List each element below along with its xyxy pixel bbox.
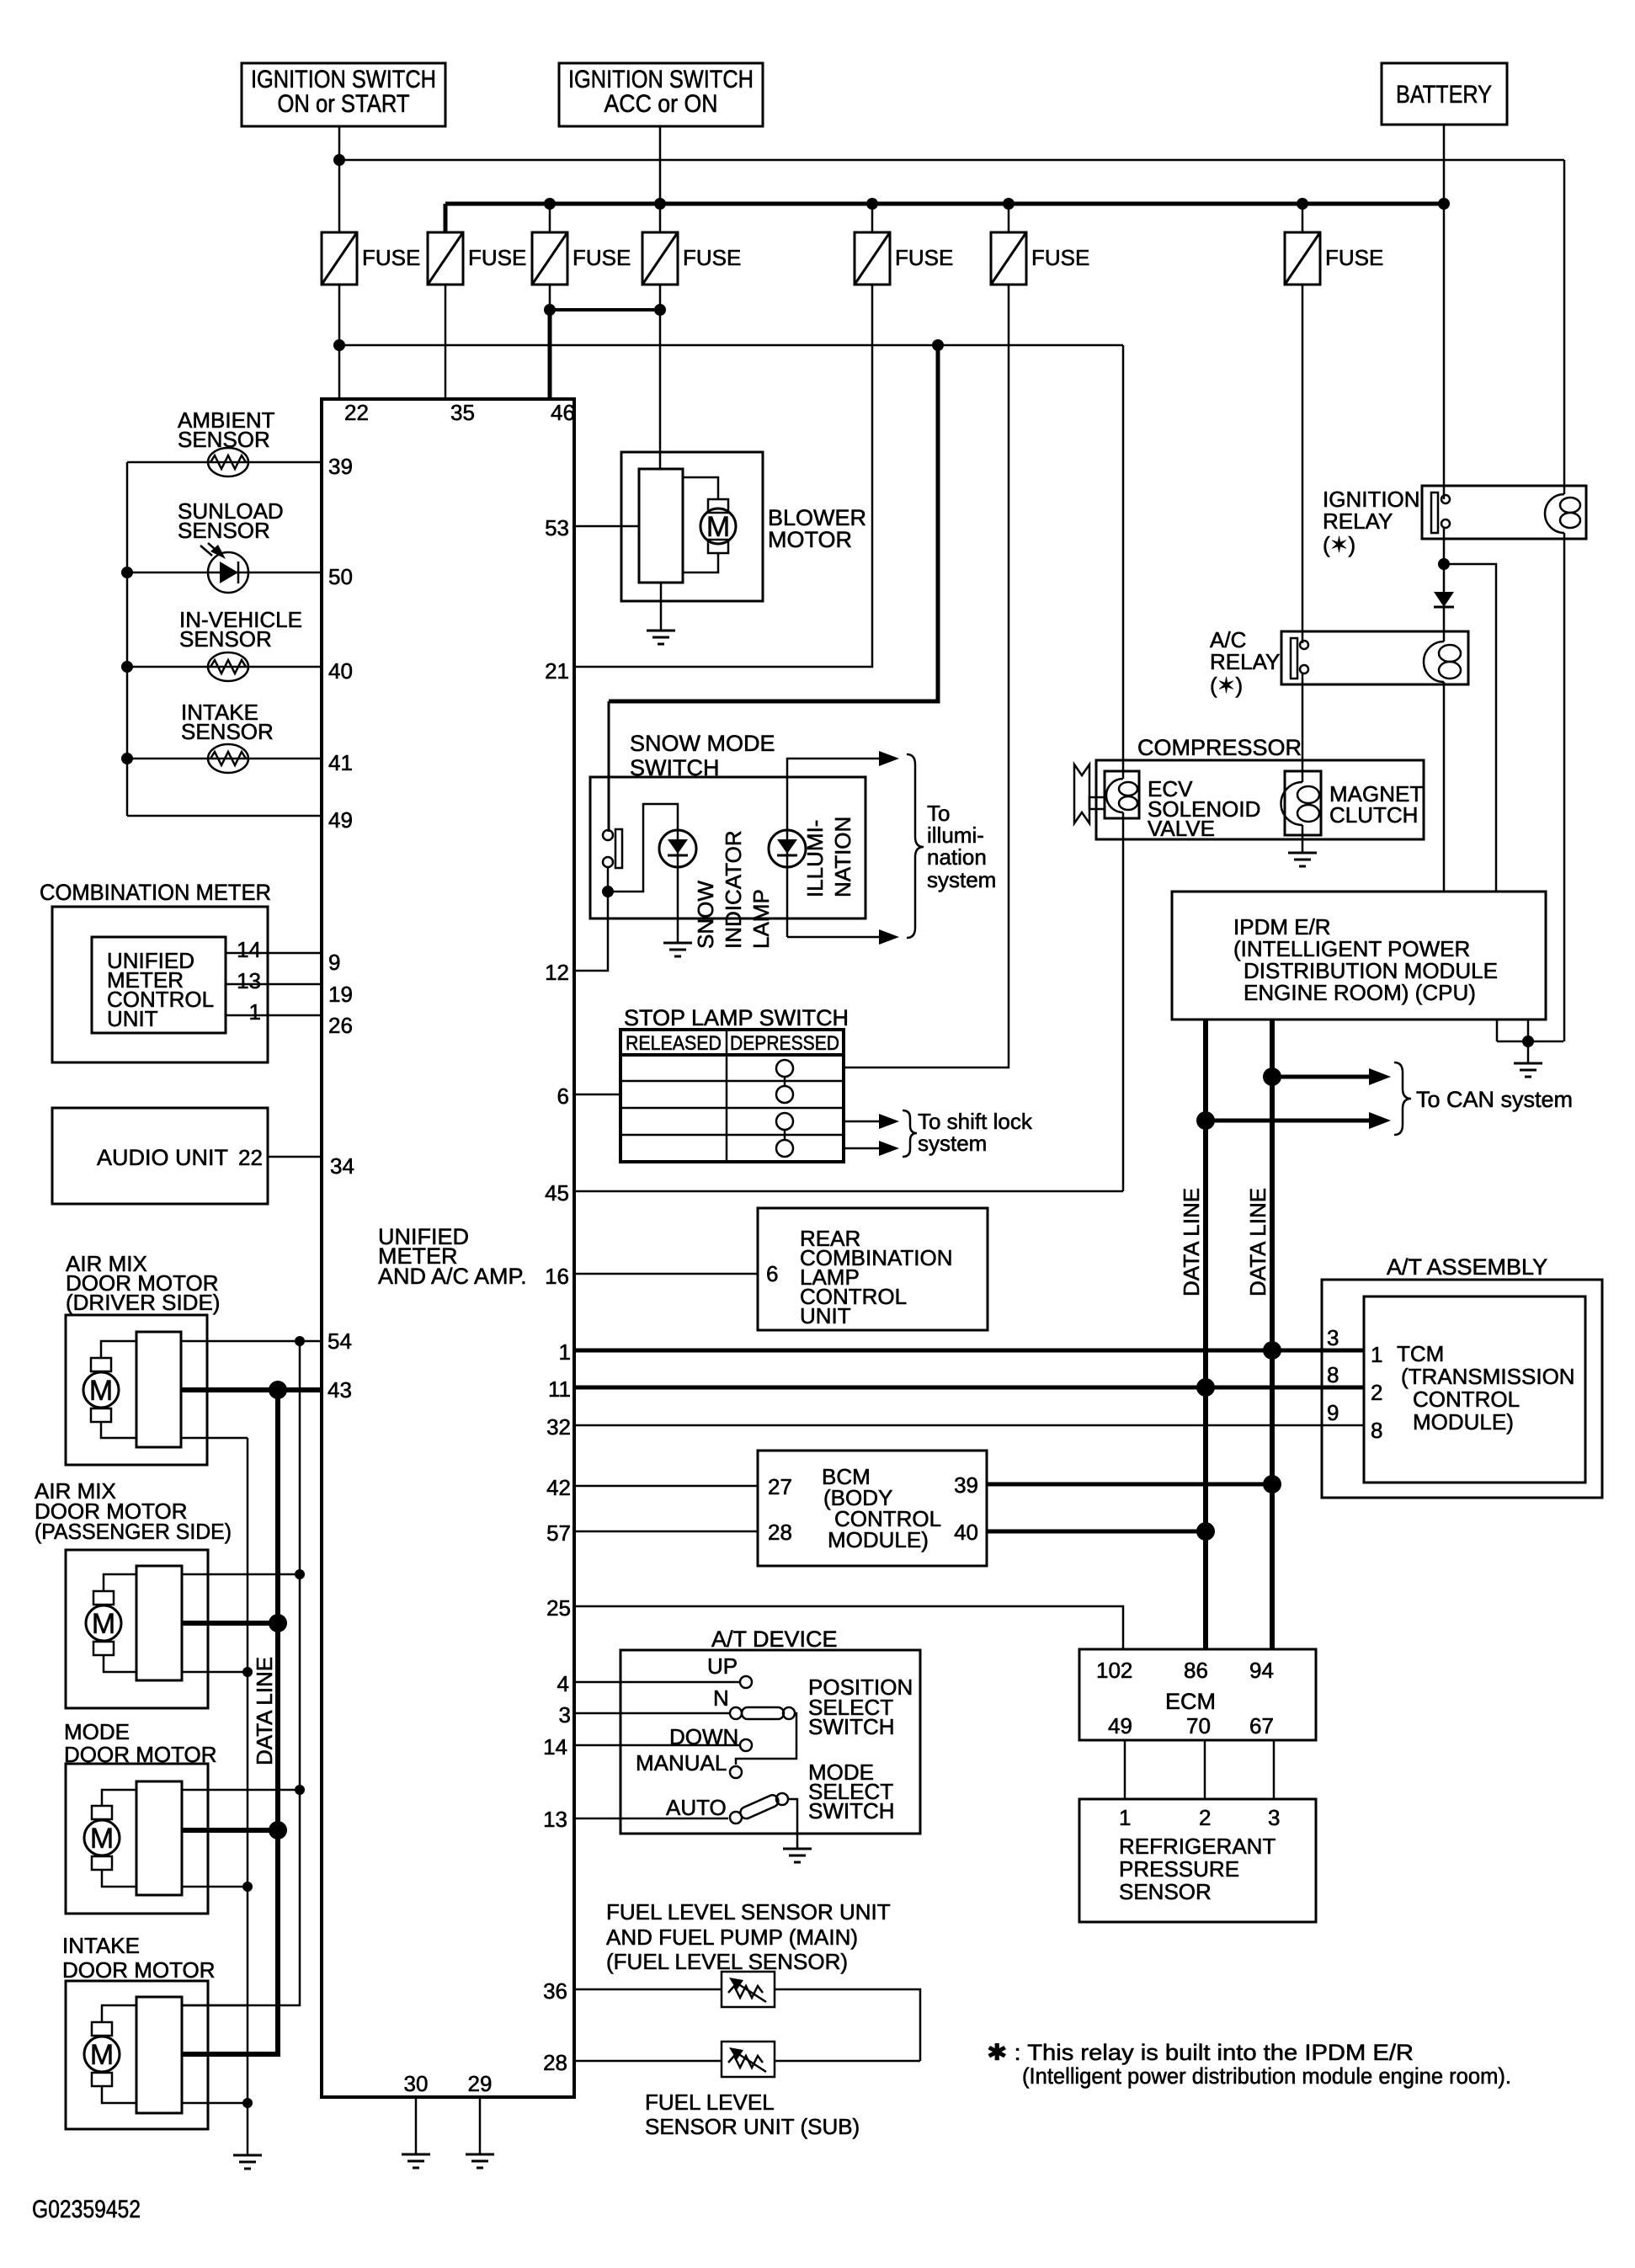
- wire: BCM pin 40 to data line (thick): [987, 1530, 1206, 1534]
- ground for pin 29: [466, 2154, 494, 2168]
- svg-text:BATTERY: BATTERY: [1396, 81, 1492, 109]
- A/C relay: [1281, 631, 1468, 684]
- wire: mode block mid to data line rail (thick): [182, 1828, 278, 1833]
- svg-text:9: 9: [328, 950, 340, 975]
- fuse F1: [322, 232, 420, 285]
- mode motor M: [84, 1806, 120, 1870]
- svg-text:53: 53: [545, 515, 569, 540]
- label AIR MIX DOOR MOTOR (DRIVER SIDE): [66, 1251, 220, 1315]
- brace to shift lock system: [903, 1110, 917, 1157]
- label AIR MIX DOOR MOTOR (PASSENGER SIDE): [35, 1478, 232, 1544]
- svg-text:14: 14: [543, 1734, 567, 1760]
- svg-text:COMPRESSOR: COMPRESSOR: [1137, 735, 1302, 760]
- svg-text:49: 49: [328, 807, 353, 833]
- junction data line rail on pin 43 wire: [269, 1381, 287, 1399]
- wire: driver block to pin 43 (thick): [181, 1387, 322, 1392]
- svg-text:M: M: [706, 511, 730, 543]
- svg-text:32: 32: [546, 1414, 571, 1440]
- svg-text:UNIT: UNIT: [107, 1006, 158, 1031]
- label MODE DOOR MOTOR: [64, 1719, 217, 1767]
- junction CAN branch upper: [1263, 1067, 1281, 1086]
- junction node on ON/START feed: [333, 154, 345, 166]
- junction data line on pin 1 wire: [1263, 1341, 1281, 1360]
- fuel level sensor (sub) variable resistor: [722, 2042, 775, 2077]
- svg-text:INTAKE: INTAKE: [62, 1933, 140, 1958]
- wire: audio pin 22 to amp pin 34: [268, 1156, 322, 1158]
- mode select switch blade on AUTO: [738, 1793, 780, 1820]
- wire: data line rail vertical (thick): [181, 1390, 278, 2054]
- label ECV SOLENOID VALVE: [1148, 776, 1260, 841]
- svg-text:A/T ASSEMBLY: A/T ASSEMBLY: [1387, 1254, 1547, 1280]
- junction CAN branch lower: [1196, 1111, 1215, 1130]
- arrow to shift lock lower: [879, 1141, 899, 1156]
- blower resistor block: [639, 469, 683, 583]
- wire: driver block bottom to rail B: [181, 1437, 248, 1440]
- fuel level sensor (main) variable resistor: [722, 1972, 775, 2007]
- svg-text:AND A/C AMP.: AND A/C AMP.: [378, 1264, 527, 1289]
- label SNOW MODE SWITCH: [630, 731, 775, 780]
- passenger side motor M: [86, 1591, 121, 1655]
- UP contact: [740, 1676, 752, 1688]
- svg-text:54: 54: [328, 1328, 352, 1354]
- svg-text:3: 3: [559, 1702, 571, 1728]
- svg-text:(PASSENGER SIDE): (PASSENGER SIDE): [35, 1519, 232, 1544]
- svg-text:FUSE: FUSE: [1325, 245, 1383, 270]
- illumination lamp: [769, 830, 806, 867]
- svg-text:To CAN system: To CAN system: [1416, 1087, 1573, 1112]
- wire: IPDM ground pin stub right: [1527, 1020, 1530, 1041]
- svg-text:(✶): (✶): [1210, 673, 1243, 698]
- svg-text:42: 42: [546, 1475, 571, 1500]
- compressor box: [1096, 760, 1424, 839]
- svg-text:DATA LINE: DATA LINE: [1179, 1188, 1204, 1296]
- wire: stop lamp row 3 to shift lock: [844, 1121, 881, 1123]
- wire: fuse 5 output down then left to pin 21: [574, 285, 872, 667]
- svg-text:3: 3: [1268, 1805, 1280, 1830]
- MANUAL contact: [730, 1766, 742, 1778]
- svg-text:CONTROL: CONTROL: [1413, 1387, 1520, 1412]
- svg-text:M: M: [90, 1823, 114, 1855]
- svg-text:ECM: ECM: [1165, 1689, 1216, 1714]
- junction snow indicator branch: [602, 886, 614, 897]
- fuse F3: [532, 232, 631, 285]
- svg-text:AUDIO UNIT: AUDIO UNIT: [97, 1145, 228, 1170]
- ambient sensor thermistor: [208, 448, 248, 476]
- wire: CAN branch upper arrow: [1272, 1075, 1371, 1079]
- svg-text:41: 41: [328, 750, 353, 775]
- fuse F6: [991, 232, 1089, 285]
- driver side motor drive block: [136, 1332, 181, 1447]
- wire: jumper joining fuse 3 and fuse 4 outputs: [550, 308, 660, 311]
- wire: sensor common return to pin 49: [127, 815, 322, 817]
- ECM box: [1079, 1649, 1316, 1740]
- wire: mode block top to rail A: [182, 1789, 300, 1792]
- footnote: relay built into IPDM E/R: [987, 2040, 1511, 2089]
- wire: pin 1 to TCM pin 1 (thick): [574, 1349, 1364, 1353]
- wire: driver block to pin 54: [181, 1340, 322, 1343]
- label POSITION SELECT SWITCH: [808, 1674, 913, 1739]
- wire: driver motor top to block: [101, 1341, 136, 1358]
- passenger side motor drive block: [136, 1566, 182, 1680]
- ground for IPDM E/R: [1514, 1063, 1542, 1077]
- svg-text:MOTOR: MOTOR: [768, 527, 852, 552]
- svg-text:PRESSURE: PRESSURE: [1119, 1856, 1239, 1882]
- svg-text:(DRIVER SIDE): (DRIVER SIDE): [66, 1290, 220, 1315]
- junction fuse 7 stub on bus 2: [1297, 198, 1308, 210]
- wire: CAN data line 2 from IPDM to ECM pin 94: [1270, 1020, 1275, 1649]
- junction rail B intake: [242, 2098, 253, 2108]
- wire: ECM pin 70 to sensor pin 2: [1204, 1740, 1206, 1799]
- svg-text:12: 12: [545, 960, 569, 985]
- wire: pin 14 to DOWN contact: [574, 1744, 740, 1747]
- svg-text:VALVE: VALVE: [1148, 816, 1215, 841]
- svg-text:UP: UP: [707, 1653, 738, 1679]
- junction ignition relay output branch: [1438, 558, 1450, 570]
- svg-text:30: 30: [404, 2071, 429, 2096]
- svg-text:RELAY: RELAY: [1210, 649, 1280, 674]
- wire: thick feed down to pin 46: [548, 310, 552, 399]
- svg-text:INDICATOR: INDICATOR: [721, 830, 746, 949]
- junction in-vehicle on left rail: [121, 661, 133, 673]
- A/T device box: [620, 1650, 920, 1834]
- junction data line on pin 11 wire: [1196, 1378, 1215, 1397]
- intake motor M: [84, 2022, 120, 2086]
- svg-text:N: N: [713, 1685, 729, 1711]
- svg-text:ENGINE ROOM) (CPU): ENGINE ROOM) (CPU): [1244, 980, 1476, 1005]
- label IPDM E/R (INTELLIGENT POWER DISTRIBUTION MODULE ENGINE ROOM) (CPU): [1233, 914, 1498, 1005]
- svg-text:G02359452: G02359452: [32, 2196, 141, 2223]
- svg-text:22: 22: [238, 1145, 263, 1170]
- wire: battery vertical feed: [1443, 125, 1446, 499]
- wire: pin 40 to in-vehicle sensor to left rail: [127, 666, 322, 668]
- N contact: [730, 1707, 742, 1719]
- wire: fuse 7 top stub: [1302, 204, 1304, 232]
- svg-text:FUSE: FUSE: [362, 245, 420, 270]
- wire: sub sensor right link: [775, 2060, 920, 2063]
- wire: rail B vertical to ground: [247, 1438, 249, 2154]
- svg-text:67: 67: [1249, 1713, 1274, 1738]
- label TCM (TRANSMISSION CONTROL MODULE): [1397, 1341, 1575, 1435]
- wire: pin 3 to N contact: [574, 1712, 729, 1715]
- wire: blower motor top to resistor: [683, 477, 718, 499]
- wire: main sensor to sub sensor link: [775, 1989, 920, 2061]
- svg-text:11: 11: [548, 1376, 571, 1402]
- svg-text:ACC or ON: ACC or ON: [604, 90, 718, 118]
- power source box IGNITION SWITCH ON or START: [242, 63, 445, 126]
- wire: pin 42 to BCM pin 27: [574, 1485, 758, 1488]
- wire: mode block bottom to rail B: [182, 1886, 248, 1888]
- wire: pin 30 to ground: [415, 2097, 418, 2154]
- svg-text:SENSOR: SENSOR: [178, 518, 270, 543]
- wire: pin 57 to BCM pin 28: [574, 1531, 758, 1533]
- label UNIFIED METER AND A/C AMP.: [378, 1224, 527, 1289]
- svg-text:6: 6: [766, 1261, 778, 1286]
- label MAGNET CLUTCH: [1329, 781, 1423, 828]
- ground for pin 30: [402, 2154, 430, 2168]
- svg-text:SENSOR: SENSOR: [1119, 1879, 1212, 1904]
- svg-text:SENSOR: SENSOR: [179, 626, 272, 652]
- svg-text:✱ : This relay is built into t: ✱ : This relay is built into the IPDM E/…: [987, 2040, 1414, 2065]
- junction rail B passenger: [242, 1667, 253, 1677]
- junction sunload on left rail: [121, 567, 133, 578]
- air mix door motor passenger side box: [66, 1550, 208, 1708]
- junction data line on BCM 40 wire: [1196, 1522, 1215, 1541]
- junction fuse 6 stub on bus 2: [1003, 198, 1015, 210]
- svg-text:M: M: [90, 2039, 114, 2071]
- wire: pin 41 to intake sensor to left rail: [127, 758, 322, 760]
- svg-text:TCM: TCM: [1397, 1341, 1444, 1366]
- position select switch blade on N: [742, 1707, 784, 1719]
- label FUEL LEVEL SENSOR UNIT (SUB): [645, 2090, 860, 2139]
- wire: bus 1 (ON or START rail) across top to right side: [339, 159, 1564, 162]
- intake door motor box: [66, 1981, 208, 2129]
- wire: illumination lamp lower lead to illumination system: [787, 936, 881, 939]
- wire: magnet clutch to ground: [1302, 825, 1304, 852]
- wire: ECV solenoid bottom down to pin 45 wire: [1122, 812, 1125, 1191]
- refrigerant pressure sensor box: [1079, 1799, 1316, 1922]
- junction battery line on bus 2: [1438, 198, 1450, 210]
- svg-text:45: 45: [545, 1180, 569, 1206]
- mode door motor box: [66, 1764, 208, 1914]
- sunload sensor photodiode: [208, 552, 248, 593]
- wire: battery feed rail right side down to ground rail: [1563, 160, 1566, 494]
- wire: ground rail drop: [1527, 1041, 1530, 1062]
- brace to CAN system: [1394, 1062, 1411, 1135]
- svg-text:(FUEL LEVEL SENSOR): (FUEL LEVEL SENSOR): [606, 1949, 848, 1974]
- svg-text:STOP LAMP SWITCH: STOP LAMP SWITCH: [624, 1005, 849, 1030]
- svg-text:FUSE: FUSE: [1031, 245, 1089, 270]
- svg-text:SNOW: SNOW: [693, 881, 718, 949]
- magnet clutch coil: [1281, 771, 1322, 835]
- wire: A/C relay contact to magnet clutch: [1302, 673, 1304, 782]
- svg-text:(✶): (✶): [1323, 532, 1355, 557]
- label To shift lock system: [918, 1109, 1033, 1156]
- junction data line on BCM 39 wire: [1263, 1475, 1281, 1493]
- svg-text:39: 39: [954, 1472, 978, 1498]
- junction fuse 3 stub on bus 2: [544, 198, 556, 210]
- wire: ignition ON/START feed down to fuse 1: [338, 126, 341, 232]
- svg-text:27: 27: [768, 1474, 792, 1499]
- svg-text:9: 9: [1327, 1400, 1339, 1425]
- svg-text:system: system: [918, 1131, 987, 1156]
- svg-text:DEPRESSED: DEPRESSED: [730, 1032, 839, 1055]
- wire: intake motor top to block: [102, 2005, 136, 2022]
- wire: passenger block bottom to rail B: [182, 1671, 248, 1674]
- svg-text:94: 94: [1249, 1658, 1274, 1683]
- svg-text:40: 40: [328, 658, 353, 684]
- svg-text:2: 2: [1371, 1380, 1382, 1405]
- label To illumination system: [927, 801, 996, 892]
- wire: fuse 3 output stub: [549, 285, 551, 310]
- BCM box: [758, 1451, 987, 1566]
- blade end contact N: [783, 1707, 795, 1719]
- wire: meter pin 14 to amp pin 9: [226, 952, 322, 955]
- svg-text:M: M: [92, 1608, 115, 1640]
- svg-text:49: 49: [1108, 1713, 1132, 1738]
- arrow to CAN system lower: [1369, 1112, 1391, 1129]
- wire: mode select common to ground: [788, 1799, 797, 1848]
- svg-text:SWITCH: SWITCH: [808, 1798, 895, 1823]
- wire: snow switch lower contact down to pin 12: [574, 867, 608, 971]
- intake motor drive block: [136, 1997, 182, 2113]
- AUTO contact: [730, 1812, 742, 1823]
- ground for magnet clutch: [1288, 853, 1317, 866]
- wire: rail A vertical: [181, 1341, 300, 2005]
- label INTAKE DOOR MOTOR: [62, 1933, 216, 1983]
- wire: CAN branch lower arrow: [1206, 1119, 1371, 1123]
- wire: fuse 7 output down to A/C relay contact: [1302, 285, 1304, 643]
- svg-text:28: 28: [543, 2050, 567, 2075]
- junction jumper left: [544, 304, 556, 316]
- wire: fuse 3 top stub: [549, 204, 551, 232]
- label A/C RELAY (*): [1210, 627, 1280, 698]
- label INTAKE SENSOR: [181, 700, 274, 744]
- svg-text:CLUTCH: CLUTCH: [1329, 802, 1418, 828]
- wire: meter pin 1 to amp pin 26: [226, 1014, 322, 1017]
- label BCM (BODY CONTROL MODULE): [822, 1464, 941, 1552]
- svg-text:(TRANSMISSION: (TRANSMISSION: [1401, 1364, 1575, 1389]
- svg-text:FUSE: FUSE: [573, 245, 631, 270]
- svg-text:35: 35: [450, 400, 475, 425]
- svg-text:NATION: NATION: [830, 817, 855, 897]
- wire: sensor common left rail: [126, 462, 129, 816]
- wire: intake block top joins rail A: [182, 2004, 248, 2007]
- svg-text:FUSE: FUSE: [468, 245, 526, 270]
- wire: pin 28 to sub fuel level sensor: [574, 2060, 722, 2063]
- svg-text:70: 70: [1186, 1713, 1211, 1738]
- svg-text:COMBINATION METER: COMBINATION METER: [40, 880, 271, 905]
- wire: passenger block mid to data line rail (thick): [182, 1621, 278, 1626]
- svg-text:36: 36: [543, 1978, 567, 2004]
- svg-text:MODULE): MODULE): [828, 1527, 929, 1552]
- svg-text:1: 1: [1371, 1342, 1382, 1367]
- in-vehicle sensor thermistor: [208, 652, 248, 681]
- wire: fuse 1 output down to pin 22: [338, 285, 341, 399]
- arrow to CAN system upper: [1369, 1068, 1391, 1085]
- label BLOWER MOTOR: [768, 505, 866, 552]
- svg-text:DATA LINE: DATA LINE: [252, 1657, 277, 1765]
- air mix door motor driver side box: [66, 1315, 207, 1465]
- blower motor box: [621, 452, 763, 601]
- brace to illumination system: [907, 754, 924, 938]
- fuse F4: [642, 232, 741, 285]
- wire: pin 45 to ECV solenoid line: [574, 1190, 1123, 1193]
- svg-text:A/T DEVICE: A/T DEVICE: [711, 1626, 838, 1652]
- fuse F7: [1285, 232, 1383, 285]
- svg-text:1: 1: [1119, 1805, 1131, 1830]
- svg-text:(Intelligent power distributio: (Intelligent power distribution module e…: [1022, 2063, 1511, 2089]
- label IGNITION RELAY (*): [1323, 487, 1420, 557]
- svg-text:system: system: [927, 867, 996, 892]
- svg-text:40: 40: [954, 1520, 978, 1545]
- svg-text:28: 28: [768, 1520, 792, 1545]
- wire: A/C relay coil to IPDM E/R: [1443, 682, 1446, 892]
- power source box IGNITION SWITCH ACC or ON: [559, 63, 763, 126]
- wire: IPDM ground pin stub left: [1496, 1020, 1499, 1041]
- svg-text:102: 102: [1096, 1658, 1132, 1683]
- svg-text:25: 25: [546, 1595, 571, 1621]
- wire: blower resistor to ground: [660, 583, 663, 630]
- driver side motor M: [83, 1358, 119, 1422]
- svg-text:4: 4: [557, 1671, 569, 1696]
- A/T assembly box: [1322, 1280, 1602, 1498]
- wire: passenger motor bottom to block: [104, 1655, 136, 1672]
- wire: meter pin 13 to amp pin 19: [226, 983, 322, 986]
- svg-text:13: 13: [237, 968, 261, 993]
- wire: mode motor bottom to block: [102, 1870, 136, 1887]
- wire: blower motor bottom to resistor: [683, 553, 718, 572]
- label IN-VEHICLE SENSOR: [179, 607, 302, 652]
- wire: pin 4 to UP contact: [574, 1681, 740, 1684]
- label MODE SELECT SWITCH: [808, 1760, 895, 1823]
- svg-text:29: 29: [468, 2071, 493, 2096]
- svg-text:8: 8: [1327, 1362, 1339, 1387]
- junction rail A on pin 54 wire: [295, 1336, 305, 1346]
- arrow to illumination system upper: [879, 751, 899, 766]
- wire: position select common: [736, 1713, 796, 1765]
- wire: snow mode switch feed drop: [608, 701, 610, 832]
- ground for door motor rail: [233, 2155, 262, 2169]
- wire: fuse 2 output down to pin 35: [445, 285, 447, 399]
- junction ACC feed on bus 2: [654, 198, 666, 210]
- IPDM E/R box: [1172, 892, 1546, 1020]
- wire: illumination lamp upper lead to illumination system: [787, 759, 881, 937]
- junction rail A passenger: [295, 1569, 305, 1579]
- svg-text:DOOR MOTOR: DOOR MOTOR: [62, 1957, 216, 1983]
- svg-text:FUEL LEVEL: FUEL LEVEL: [645, 2090, 775, 2115]
- label REFRIGERANT PRESSURE SENSOR: [1119, 1834, 1276, 1904]
- junction rail B mode: [242, 1882, 253, 1892]
- svg-text:SWITCH: SWITCH: [808, 1714, 895, 1739]
- label FUEL LEVEL SENSOR UNIT AND FUEL PUMP (MAIN) (FUEL LEVEL SENSOR): [606, 1899, 891, 1974]
- rear combination lamp control unit box: [758, 1208, 988, 1330]
- svg-text:FUSE: FUSE: [683, 245, 741, 270]
- wire: pin 16 to rear combination lamp control unit: [574, 1273, 758, 1275]
- junction rail A mode: [295, 1785, 305, 1795]
- unified meter and A/C amp main box: [322, 399, 574, 2097]
- label ILLUMI-NATION (rotated): [802, 817, 855, 897]
- svg-text:3: 3: [1327, 1325, 1339, 1350]
- label UNIFIED METER CONTROL UNIT: [107, 948, 214, 1031]
- junction snow-switch branch on bus 3: [932, 339, 944, 351]
- svg-text:57: 57: [546, 1520, 571, 1546]
- label SNOW INDICATOR LAMP (rotated): [693, 830, 774, 949]
- combination meter box: [52, 907, 268, 1062]
- audio unit box: [52, 1108, 268, 1204]
- wire: pin 36 to main fuel level sensor: [574, 1988, 722, 1991]
- TCM box: [1364, 1296, 1585, 1483]
- wire: fuse 6 output down then left to stop lamp switch: [844, 285, 1009, 1067]
- svg-text:34: 34: [330, 1153, 354, 1179]
- wire: passenger motor top to block: [104, 1574, 136, 1591]
- svg-text:RELEASED: RELEASED: [626, 1032, 722, 1055]
- svg-text:nation: nation: [927, 844, 987, 870]
- intake sensor thermistor: [208, 744, 248, 773]
- svg-text:6: 6: [557, 1083, 569, 1109]
- junction data line rail passenger: [269, 1614, 287, 1632]
- wire: diode to A/C relay coil: [1443, 607, 1446, 642]
- wire: bus 2 thick ACC/battery rail: [445, 202, 1444, 206]
- mode motor drive block: [136, 1781, 182, 1895]
- wire: bus 2 left end down into fuse 2: [444, 204, 448, 232]
- svg-text:SENSOR UNIT (SUB): SENSOR UNIT (SUB): [645, 2114, 860, 2139]
- svg-text:SNOW MODE: SNOW MODE: [630, 731, 775, 756]
- wire: ignition ACC/ON feed down to fuse 4: [659, 126, 662, 232]
- wire: driver motor bottom to block: [101, 1422, 136, 1438]
- wire: bus 3 drop to ECV solenoid valve: [1122, 345, 1125, 779]
- wire: ECM pin 67 to sensor pin 3: [1273, 1740, 1276, 1799]
- svg-text:26: 26: [328, 1013, 353, 1038]
